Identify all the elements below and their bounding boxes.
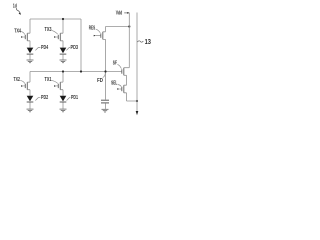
junction: column line / SEL source xyxy=(136,100,138,102)
wire: SF source to SEL drain xyxy=(126,75,128,85)
wire: TX1 source to PD1 xyxy=(62,90,64,96)
wire: PD1 to ground xyxy=(62,103,64,109)
transistor TX4 xyxy=(21,33,30,41)
junction: RES drain wire / Vdd rail xyxy=(128,25,130,27)
wire: PD2 to ground xyxy=(29,103,31,109)
wire: capacitor to ground xyxy=(105,103,107,109)
svg-text:FD: FD xyxy=(97,78,103,84)
junction: top bus / TX3 drain xyxy=(62,18,64,20)
leader TX2 xyxy=(20,80,25,83)
wire: TX2 source to PD2 xyxy=(29,90,31,96)
leader FD xyxy=(103,73,106,77)
svg-text:TX1: TX1 xyxy=(45,77,52,83)
capacitor (FD capacitance) xyxy=(101,100,109,103)
transistor RES (reset) xyxy=(94,32,106,40)
wire: Vdd rail xyxy=(128,13,130,68)
junction: FD bus / top-bus drop xyxy=(80,70,82,72)
wire: TX4 source to PD4 xyxy=(29,41,31,48)
wire: PD4 to ground xyxy=(29,55,31,60)
photodiode PD4 xyxy=(27,48,34,55)
wire: top bus down to FD bus xyxy=(80,19,82,72)
svg-text:RES: RES xyxy=(89,26,96,32)
svg-text:TX4: TX4 xyxy=(14,29,21,35)
transistor SF (source follower) xyxy=(122,68,130,76)
ground (PD4) xyxy=(27,60,34,63)
wire: PD3 to ground xyxy=(62,55,64,60)
wire: TX4 drain riser xyxy=(29,19,31,33)
svg-text:SF: SF xyxy=(113,60,117,66)
junction: FD node (RES source / FD bus / capacitor) xyxy=(104,70,106,72)
wire: TX1 drain riser xyxy=(62,72,64,83)
ground (FD capacitor) xyxy=(102,109,109,112)
photodiode PD3 xyxy=(60,48,67,55)
wire: vertical signal (column) line 13 xyxy=(136,13,138,112)
transistor TX2 xyxy=(21,82,30,90)
leader PD3 xyxy=(66,48,70,51)
svg-text:PD2: PD2 xyxy=(41,95,48,101)
svg-text:TX3: TX3 xyxy=(45,27,52,33)
transistor SEL (row select) xyxy=(117,85,126,93)
leader PD2 xyxy=(35,98,40,101)
svg-text:TX2: TX2 xyxy=(14,77,21,83)
svg-text:PD3: PD3 xyxy=(71,45,79,51)
photodiode PD2 xyxy=(27,96,34,102)
transistor TX1 xyxy=(54,82,63,90)
ground (PD2) xyxy=(27,109,34,112)
ground (PD1) xyxy=(60,109,67,112)
leader SF xyxy=(117,64,121,68)
wire: top row drain bus (TX4/TX3 to FD drop) xyxy=(30,18,81,20)
leader RES xyxy=(96,29,101,33)
arrow: column line output xyxy=(136,111,139,115)
label 13 (with tilde leader) xyxy=(138,41,144,42)
wire: RES source down to FD bus and capacitor xyxy=(105,39,107,99)
leader TX3 xyxy=(52,30,58,34)
ground (PD3) xyxy=(60,60,67,63)
svg-text:SEL: SEL xyxy=(111,81,117,87)
label 1d (pixel circuit reference numeral) xyxy=(13,3,21,14)
svg-text:13: 13 xyxy=(145,39,151,46)
svg-text:PD1: PD1 xyxy=(71,95,78,101)
wire: TX3 drain riser xyxy=(62,19,64,33)
svg-text:Vdd: Vdd xyxy=(116,11,123,17)
wire: SEL source to column line xyxy=(127,93,138,101)
transistor TX3 xyxy=(54,33,63,41)
photodiode PD1 xyxy=(60,96,67,102)
wire: TX2 drain riser xyxy=(29,72,31,83)
wire: FD bus (floating diffusion node) xyxy=(30,71,122,73)
wire: RES drain up and over to Vdd rail xyxy=(106,27,130,32)
leader PD1 xyxy=(67,98,71,101)
svg-text:PD4: PD4 xyxy=(41,45,48,51)
leader PD4 xyxy=(35,48,40,51)
leader TX1 xyxy=(52,80,58,83)
junction: FD bus / TX1 drain xyxy=(62,70,64,72)
leader TX4 xyxy=(21,32,25,35)
leader SEL xyxy=(118,85,122,87)
wire: TX3 source to PD3 xyxy=(62,41,64,48)
arrow: Vdd pointer xyxy=(124,12,127,14)
